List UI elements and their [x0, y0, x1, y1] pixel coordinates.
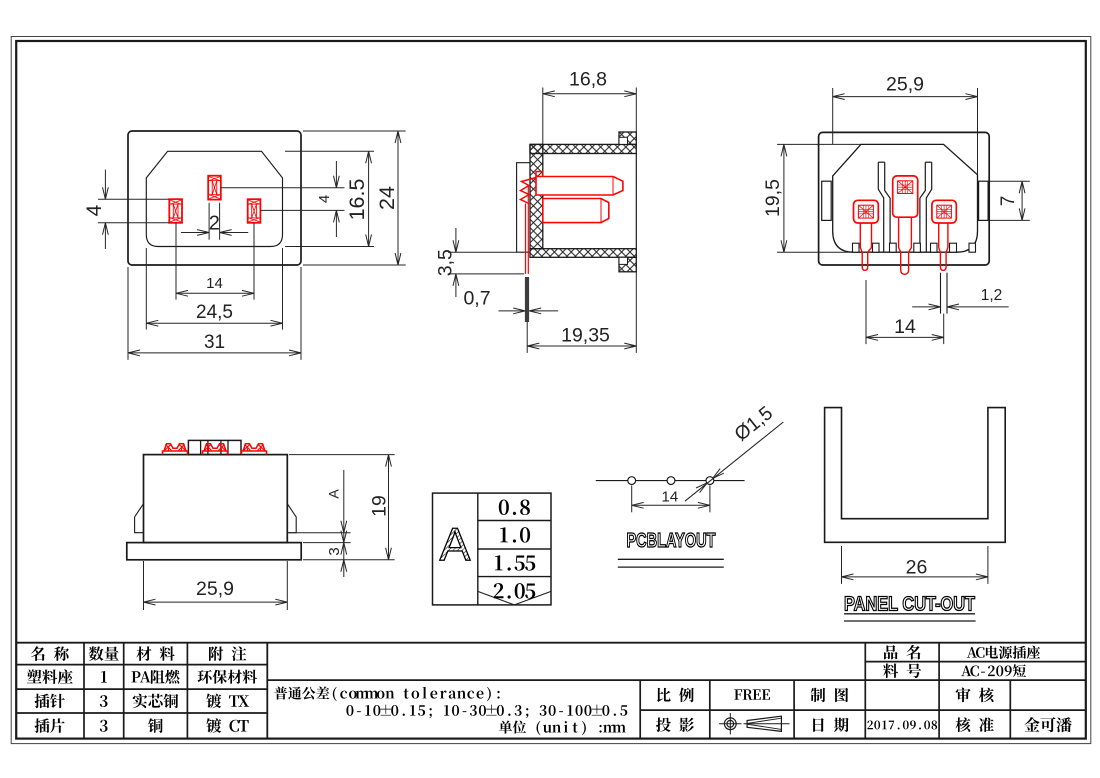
dimension 4 right [335, 161, 337, 188]
svg-text:7: 7 [998, 196, 1019, 207]
side view left wall hatched [530, 144, 543, 248]
svg-text:PANEL CUT-OUT: PANEL CUT-OUT [844, 593, 975, 615]
title block top border [16, 642, 1086, 644]
front view socket cavity with chamfered corners [146, 151, 282, 246]
BOM table grid [83, 643, 85, 739]
label 品名 [884, 645, 898, 659]
rear view left pin head (red) [854, 200, 879, 223]
bottom view base flange [127, 543, 301, 560]
value AC电源插座 [967, 647, 977, 657]
label 比例 [657, 688, 671, 702]
side view lower pin contact (red) [543, 199, 609, 223]
label 投影 [656, 717, 671, 732]
svg-text:31: 31 [204, 332, 225, 353]
label 制图 [811, 688, 826, 702]
BOM row 插针 [35, 694, 50, 709]
panel cut-out dimension 26 [841, 546, 843, 584]
dimension 1.2 pin thickness [912, 306, 939, 308]
third angle projection symbol [724, 718, 736, 730]
side view pin solder tail below (dark) [525, 277, 529, 322]
svg-text:4: 4 [316, 195, 333, 203]
svg-text:2: 2 [209, 212, 220, 234]
pcb layout hole middle [667, 477, 675, 485]
label 核准 [956, 717, 971, 732]
bottom view left snap wing [135, 504, 144, 533]
bottom view top terminal block [188, 440, 241, 454]
dimension 16.5 cavity height [285, 150, 374, 152]
svg-text:24,5: 24,5 [196, 302, 233, 323]
svg-text:A: A [326, 489, 342, 499]
A-value table frame [433, 493, 552, 605]
rear view right pin tail (red) [939, 223, 948, 270]
svg-text:PCBLAYOUT: PCBLAYOUT [627, 529, 716, 552]
rear view center keyway funnel [878, 162, 883, 252]
svg-text:19,5: 19,5 [762, 179, 784, 217]
dimension 7 tab height [988, 180, 1030, 182]
pcb dimension 14 [631, 486, 633, 513]
svg-text:19: 19 [368, 495, 390, 517]
svg-text:14: 14 [662, 489, 679, 506]
BOM header row text [31, 646, 45, 661]
value 2017.09.08 [867, 720, 873, 729]
svg-text:1,2: 1,2 [981, 287, 1003, 304]
rear view left side tab [822, 181, 832, 220]
rear view left pin tail (red) [860, 223, 871, 270]
svg-text:3,5: 3,5 [435, 249, 457, 276]
side view bottom wall hatched [530, 249, 636, 258]
rear view center pin head (red) [893, 176, 918, 217]
svg-text:4: 4 [83, 204, 106, 216]
A-value table values [499, 500, 509, 515]
dimension 24.5 cavity width [145, 248, 147, 330]
dimension 31 body width [127, 267, 129, 360]
dimension 19 height [289, 454, 395, 456]
A-value table break mark [478, 591, 515, 605]
svg-text:14: 14 [894, 316, 916, 338]
svg-text:26: 26 [906, 556, 928, 578]
BOM row 塑料座 [27, 669, 42, 683]
extension lines pin centers down [175, 223, 177, 300]
dimension 16.8 [542, 88, 544, 145]
rear view socket outer body [819, 132, 990, 265]
side view pin solder tail (red) [525, 204, 527, 274]
rear view right pin tail edge lines [940, 273, 942, 314]
svg-text:16,8: 16,8 [569, 68, 607, 90]
rear view right pin head (red) [932, 200, 956, 223]
label 料号 [883, 663, 898, 678]
extension lines from center and right pin to right side [221, 187, 345, 189]
svg-text:25,9: 25,9 [196, 578, 234, 600]
side view pin spring crown (red) [521, 178, 537, 204]
panel cut-out U channel [825, 408, 1006, 543]
bottom view main body [144, 455, 288, 543]
side view bottom-right mounting tab hatched [619, 257, 636, 272]
tolerance note text [274, 686, 287, 699]
front view socket outer body [128, 131, 301, 265]
svg-text:24: 24 [375, 186, 399, 210]
svg-text:16.5: 16.5 [345, 179, 369, 221]
rear view bottom teeth [853, 243, 860, 252]
dimension 19.35 [635, 272, 637, 353]
value AC-209短 [961, 666, 971, 676]
rear view right side tab [979, 181, 989, 220]
rear view cavity outline [833, 144, 978, 252]
svg-text:A: A [440, 519, 471, 571]
front view left pin (red) [169, 199, 182, 223]
dimension 4 left [104, 170, 106, 200]
pcb layout hole left [628, 477, 636, 485]
dimension 14 pin spacing [176, 292, 254, 294]
value 金可潘 [1024, 717, 1039, 732]
bottom view solder lugs (red) [163, 451, 188, 454]
value FREE [734, 689, 742, 699]
dimension 0.7 [499, 310, 524, 312]
bottom view right snap wing [287, 504, 296, 533]
side view top wall hatched [530, 144, 636, 153]
front view right pin (red) [248, 199, 261, 223]
BOM row 插片 [35, 718, 50, 733]
extension lines from left pin [98, 198, 169, 200]
label 审核 [956, 688, 971, 703]
dimension 24 body height [303, 130, 406, 132]
rear view center pin tail (red) [899, 217, 912, 274]
front view center pin (red) [208, 176, 221, 200]
dimension 3.5 [448, 251, 517, 253]
pcb layout centerline [596, 480, 745, 482]
dimension A snap gap [289, 532, 351, 534]
pcb layout hole right [706, 477, 714, 485]
side view right mounting face line [635, 154, 637, 249]
svg-text:14: 14 [206, 275, 223, 292]
dimension 2 center pin width [208, 203, 210, 240]
svg-text:0,7: 0,7 [463, 287, 490, 309]
title block right grid [639, 680, 641, 739]
side view upper pin contact (red) [536, 177, 623, 196]
pcb hole diameter leader 1.5 [685, 422, 783, 501]
dimension 25.9 bottom view [143, 561, 145, 610]
side view left flange plate [517, 163, 530, 253]
dimension 19.5 rear [777, 143, 861, 145]
svg-text:19,35: 19,35 [561, 324, 610, 346]
label 日期 [813, 718, 824, 732]
dimension 25.9 rear [832, 88, 834, 144]
dimension 14 rear pin spacing [865, 280, 867, 344]
svg-text:25,9: 25,9 [886, 73, 924, 95]
side view top-right mounting tab hatched [619, 132, 636, 144]
dimension 3 flange thickness [341, 560, 347, 572]
svg-text:3: 3 [326, 547, 343, 555]
